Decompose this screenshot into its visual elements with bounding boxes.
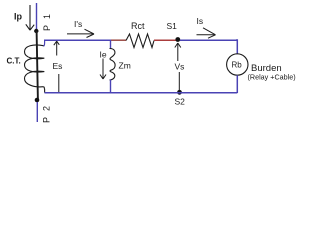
label P2 (rotated) — [42, 100, 52, 123]
node P1 (junction dot) — [34, 29, 38, 33]
label Zm — [119, 61, 131, 71]
wire: right branch upper — [236, 40, 237, 54]
label Rb — [232, 61, 243, 70]
svg-text:C.T.: C.T. — [7, 56, 21, 65]
label C.T. — [7, 56, 21, 65]
svg-text:Rct: Rct — [131, 21, 145, 31]
wire: primary top lead (blue) — [36, 3, 38, 30]
wire: secondary left top stub — [44, 40, 45, 46]
wire: primary bottom lead (blue) — [36, 102, 38, 122]
label S2 — [175, 97, 186, 107]
wire: secondary top right section (blue) — [180, 39, 237, 41]
label Vs — [175, 61, 185, 71]
label Ie — [100, 49, 107, 59]
svg-text:Is: Is — [197, 16, 204, 26]
wire: secondary bottom (blue) — [45, 92, 238, 94]
wire: magnetizing branch lower — [110, 80, 112, 93]
svg-text:S2: S2 — [175, 97, 186, 107]
svg-text:(Relay +Cable): (Relay +Cable) — [248, 73, 296, 82]
label Is — [197, 16, 204, 26]
svg-text:S1: S1 — [167, 21, 178, 31]
wire: red segment to Rct — [111, 39, 126, 41]
voltage arrow Vs — [175, 43, 181, 61]
current arrow Ie — [100, 59, 106, 80]
label Burden — [251, 63, 282, 74]
node P2 (junction dot) — [35, 98, 40, 103]
svg-text:Zm: Zm — [119, 61, 131, 71]
label Ip — [14, 12, 23, 22]
label P1 (rotated) — [42, 8, 52, 31]
current arrow Is — [197, 28, 216, 38]
svg-text:P1: P1 — [42, 8, 52, 31]
EMF arrow Es — [54, 41, 60, 55]
wire: Es lower stub — [58, 74, 60, 93]
current arrow Ip — [26, 5, 34, 30]
C.T. secondary winding coil — [25, 45, 45, 87]
label (Relay +Cable) — [248, 73, 296, 82]
wire: red segment Rct to S1 — [154, 39, 176, 41]
label I's — [74, 19, 82, 29]
svg-text:Rb: Rb — [232, 61, 243, 70]
inductor Zm (arcs) — [110, 49, 116, 81]
node S1 (junction dot) — [175, 37, 180, 42]
wire: right branch lower — [236, 75, 238, 93]
svg-text:Vs: Vs — [175, 61, 185, 71]
svg-text:Ie: Ie — [100, 49, 107, 59]
current arrow I's — [67, 29, 94, 37]
label S1 — [167, 21, 178, 31]
svg-text:P2: P2 — [42, 100, 52, 123]
wire: primary conductor through C.T. (black bar) — [37, 31, 38, 100]
svg-text:Ip: Ip — [14, 12, 23, 22]
svg-text:Es: Es — [53, 61, 63, 71]
label Es — [53, 61, 63, 71]
burden resistor Rb (circle) — [227, 54, 248, 75]
resistor Rct (zigzag) — [126, 34, 154, 48]
wire: secondary left bottom stub — [43, 87, 46, 93]
wire: Vs lower measurement line — [178, 72, 180, 91]
svg-text:I's: I's — [74, 19, 82, 29]
node S2 (junction dot) — [177, 90, 182, 95]
label Rct — [131, 21, 145, 31]
wire: secondary top left section (blue) — [44, 39, 111, 41]
wire: magnetizing branch upper — [110, 40, 112, 49]
